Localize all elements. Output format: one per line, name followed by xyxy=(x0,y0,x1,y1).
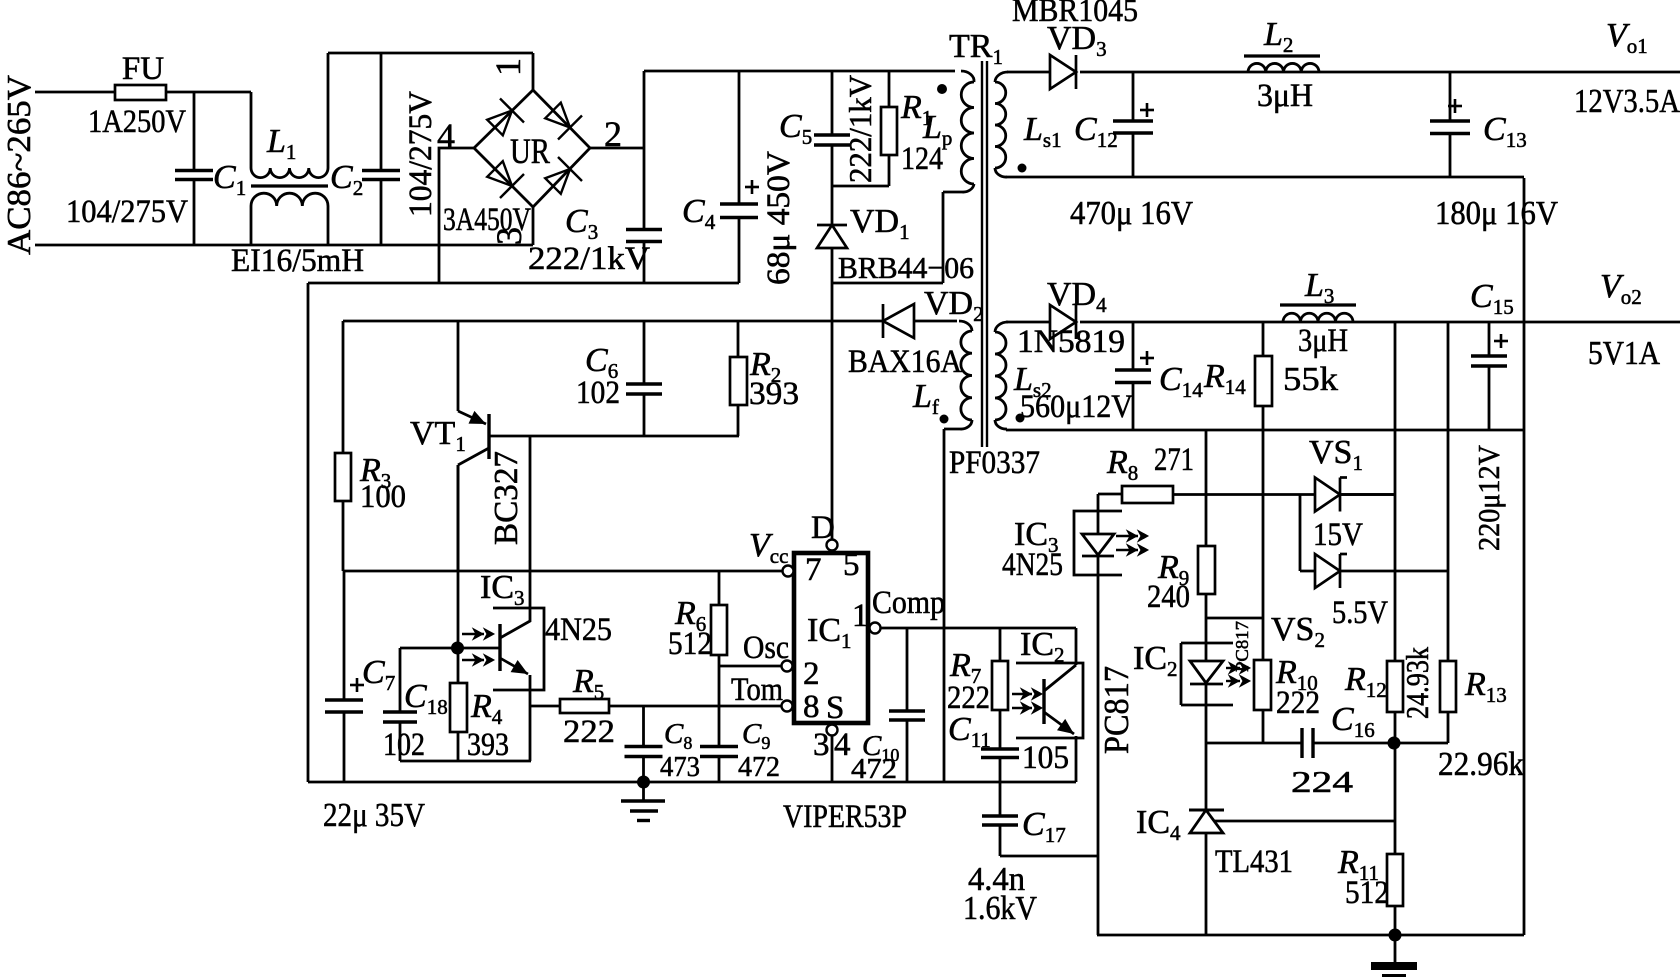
svg-text:1A250V: 1A250V xyxy=(88,104,186,140)
IC4 TL431 xyxy=(1189,809,1224,812)
resistor R6 xyxy=(718,571,721,605)
optocoupler IC3 collector xyxy=(500,436,530,638)
bridge diode bottom-right xyxy=(545,169,570,194)
label C14 plus xyxy=(1140,357,1154,360)
diode VD1 xyxy=(817,225,847,248)
svg-text:8: 8 xyxy=(803,689,820,725)
node dot C16 xyxy=(1388,737,1401,750)
capacitor C6 xyxy=(643,321,646,384)
svg-text:PC817: PC817 xyxy=(1232,621,1252,672)
svg-text:BC327: BC327 xyxy=(488,451,525,545)
wire VD2 to Lf xyxy=(913,320,957,323)
IC4 TL431 column top xyxy=(1205,743,1208,810)
resistor R7 xyxy=(999,628,1002,661)
wire C17 to right column xyxy=(1000,855,1098,858)
zener VS2 xyxy=(1315,554,1340,588)
capacitor C1 xyxy=(193,92,196,170)
resistor R3 xyxy=(335,453,351,501)
wire R13 to C16 row xyxy=(1447,712,1450,743)
svg-text:3: 3 xyxy=(813,727,830,763)
optocoupler IC3 box xyxy=(493,608,544,690)
svg-text:222/1kV: 222/1kV xyxy=(842,75,878,183)
capacitor C5 xyxy=(831,71,834,135)
svg-text:222: 222 xyxy=(1276,685,1320,721)
wire C16 row left xyxy=(1206,742,1302,745)
wire AC live top xyxy=(35,91,115,94)
wire C16 row right xyxy=(1313,742,1448,745)
optocoupler IC2 light arrow 1 xyxy=(1012,693,1032,695)
optocoupler IC2 right box xyxy=(1181,642,1233,645)
ground symbol xyxy=(642,782,645,800)
wire left column xyxy=(307,283,310,782)
svg-text:393: 393 xyxy=(467,727,509,763)
svg-text:22μ 35V: 22μ 35V xyxy=(323,797,425,834)
wire VS2 row xyxy=(1300,570,1448,573)
wire R3 column top xyxy=(342,321,345,453)
svg-text:5: 5 xyxy=(843,547,860,583)
svg-text:2: 2 xyxy=(604,114,622,154)
svg-text:473: 473 xyxy=(660,751,700,783)
secondary Ls1 xyxy=(995,72,1008,82)
wire R9 bottom jog xyxy=(1205,594,1208,618)
pin Osc circle xyxy=(782,661,793,672)
svg-text:100: 100 xyxy=(360,479,406,515)
capacitor C9 xyxy=(700,745,738,748)
wire base node to bar xyxy=(458,647,500,650)
pin S circle xyxy=(827,725,838,736)
svg-text:104/275V: 104/275V xyxy=(66,194,188,230)
svg-text:AC86~265V: AC86~265V xyxy=(1,75,38,255)
pin Vcc circle xyxy=(783,566,794,577)
resistor R13 xyxy=(1440,661,1456,712)
svg-text:4: 4 xyxy=(437,116,455,156)
wire DC- rail xyxy=(308,282,739,285)
diode VD4 xyxy=(1050,305,1076,339)
transformer TR1 core xyxy=(981,61,983,447)
capacitor C17 xyxy=(999,782,1002,816)
label C12 plus xyxy=(1140,109,1154,112)
IC4 column bottom xyxy=(1205,833,1208,935)
wire primary ground rail xyxy=(308,781,1076,784)
LED IC2 light arrow 2 xyxy=(1226,680,1240,682)
wire aux rail xyxy=(343,320,883,323)
LED IC2 right anode xyxy=(1205,618,1208,661)
resistor R10 xyxy=(1254,660,1271,710)
LED IC3 right xyxy=(1097,494,1100,534)
bridge diode top-left xyxy=(487,111,512,136)
wire 12V return down xyxy=(1523,178,1526,935)
svg-text:FU: FU xyxy=(122,51,164,87)
wire Vcc rail xyxy=(343,570,783,573)
bridge diode bottom-left xyxy=(487,161,512,186)
wire Osc xyxy=(719,665,782,668)
wire R13 column xyxy=(1447,322,1450,661)
pin Comp circle xyxy=(870,623,881,634)
capacitor C13 xyxy=(1449,72,1452,121)
node dot bottom rail xyxy=(1389,929,1402,942)
LED IC2 right xyxy=(1190,661,1223,683)
wire snubber bottom xyxy=(832,185,889,188)
inductor L2 xyxy=(1248,63,1319,72)
wire Comp xyxy=(881,627,1077,630)
transistor VT1 base wire xyxy=(489,435,739,438)
capacitor C16 xyxy=(1300,728,1303,758)
svg-text:5V1A: 5V1A xyxy=(1588,335,1660,372)
svg-text:1: 1 xyxy=(488,58,528,76)
svg-text:Tom: Tom xyxy=(731,672,783,708)
diode VD2 xyxy=(883,304,914,338)
wire 5V rail xyxy=(1080,321,1680,324)
wire IC3 anode corner xyxy=(1098,493,1122,496)
LED IC2 light arrow 1 xyxy=(1226,667,1240,669)
svg-text:VIPER53P: VIPER53P xyxy=(783,799,907,835)
resistor R8 xyxy=(1122,486,1173,503)
capacitor C2 xyxy=(380,53,383,170)
transistor VT1 bar xyxy=(487,414,490,459)
svg-text:220μ12V: 220μ12V xyxy=(1471,444,1506,551)
bridge diode top-right xyxy=(545,103,570,128)
svg-text:393: 393 xyxy=(749,376,799,412)
wire DC+ top rail xyxy=(644,70,955,73)
svg-text:15V: 15V xyxy=(1313,517,1363,553)
pin D circle xyxy=(827,540,838,551)
resistor R14 xyxy=(1262,322,1265,356)
optocoupler IC3 right box xyxy=(1074,511,1122,575)
svg-text:MBR1045: MBR1045 xyxy=(1012,0,1138,29)
svg-text:105: 105 xyxy=(1022,740,1069,776)
svg-text:240: 240 xyxy=(1147,579,1190,615)
wire L1 top left lead xyxy=(250,92,253,168)
wire R10 column xyxy=(1262,618,1265,660)
svg-text:55k: 55k xyxy=(1283,361,1338,398)
resistor R4 xyxy=(457,648,460,683)
svg-text:271: 271 xyxy=(1154,442,1194,478)
inductor L1 bottom winding xyxy=(251,193,328,206)
svg-text:24.93k: 24.93k xyxy=(1399,647,1435,719)
svg-text:222/1kV: 222/1kV xyxy=(528,241,650,277)
svg-text:4: 4 xyxy=(834,727,851,763)
ground symbol right xyxy=(1394,935,1397,963)
capacitor C7 xyxy=(343,571,346,700)
svg-text:Comp: Comp xyxy=(872,585,945,621)
transistor VT1 emitter lead xyxy=(457,321,460,411)
optocoupler IC3 bar xyxy=(498,624,501,671)
svg-text:560μ12V: 560μ12V xyxy=(1020,389,1133,425)
wire collector column xyxy=(457,465,460,648)
node dot base xyxy=(451,642,464,655)
svg-text:22.96k: 22.96k xyxy=(1438,746,1524,783)
svg-text:7: 7 xyxy=(805,552,822,588)
svg-text:UR: UR xyxy=(510,131,550,171)
primary dot xyxy=(937,84,947,94)
resistor R5 xyxy=(530,705,560,708)
optocoupler IC2 left emitter xyxy=(1044,712,1074,734)
wire VS1 to R12 column xyxy=(1339,493,1395,496)
svg-text:TL431: TL431 xyxy=(1215,844,1293,880)
svg-text:4N25: 4N25 xyxy=(1002,547,1063,583)
wire R4 bottom link xyxy=(400,760,531,763)
resistor R9 xyxy=(1198,546,1215,594)
svg-text:PC817: PC817 xyxy=(1097,666,1136,754)
svg-text:222: 222 xyxy=(563,714,615,750)
label C13 plus xyxy=(1448,105,1462,108)
LED IC3 light arrow 2 xyxy=(1116,549,1138,551)
bridge UR diamond xyxy=(474,90,590,207)
wire bridge pin4 xyxy=(439,148,474,283)
svg-text:S: S xyxy=(826,690,844,726)
wire S to ground rail xyxy=(831,736,834,783)
wire Ls2 to VD4 xyxy=(1006,321,1050,324)
svg-text:2: 2 xyxy=(803,656,820,692)
svg-text:5.5V: 5.5V xyxy=(1332,595,1388,631)
resistor R1 xyxy=(888,71,891,107)
svg-text:3μH: 3μH xyxy=(1298,323,1348,359)
capacitor C14 xyxy=(1132,322,1135,370)
wire IC3 cathode long column xyxy=(1097,556,1100,935)
svg-text:472: 472 xyxy=(738,751,780,783)
wire zener jog xyxy=(1299,495,1302,572)
label C7 plus xyxy=(350,684,364,687)
label C15 plus xyxy=(1494,340,1508,343)
wire AC neutral bottom xyxy=(35,244,533,247)
wire DC+ column xyxy=(643,71,646,229)
optocoupler IC2 light arrow 2 xyxy=(1012,707,1032,709)
optocoupler IC3 light arrow 2 xyxy=(462,659,484,661)
resistor R11 xyxy=(1387,854,1403,906)
svg-text:BRB44−06: BRB44−06 xyxy=(838,250,974,285)
svg-text:102: 102 xyxy=(576,375,620,411)
capacitor C3 xyxy=(626,228,662,231)
IC IC1 VIPER53P box xyxy=(794,553,868,723)
diode VD3 xyxy=(1050,55,1076,89)
capacitor C12 xyxy=(1132,72,1135,121)
wire LED cathode to C16 row xyxy=(1205,684,1208,743)
wire R12 column xyxy=(1394,322,1397,661)
svg-text:180μ 16V: 180μ 16V xyxy=(1435,195,1558,232)
svg-text:124: 124 xyxy=(901,141,943,177)
inductor L1 top winding xyxy=(251,168,328,178)
svg-text:PF0337: PF0337 xyxy=(949,445,1040,481)
wire VD1 to D pin xyxy=(831,248,834,540)
Lf dot xyxy=(940,415,949,424)
svg-text:512: 512 xyxy=(668,626,712,662)
svg-text:12V3.5A: 12V3.5A xyxy=(1574,83,1680,120)
wire 12V return xyxy=(1006,176,1524,179)
wire Ls1 to VD3 xyxy=(1007,71,1050,74)
inductor L1 core bar xyxy=(251,184,328,187)
svg-text:1: 1 xyxy=(852,598,869,634)
wire 12V rail xyxy=(1080,71,1680,74)
svg-text:102: 102 xyxy=(383,727,425,763)
Ls2 dot xyxy=(1016,414,1025,423)
optocoupler IC3 light arrow 1 xyxy=(462,633,484,635)
resistor R2 xyxy=(737,321,740,357)
transistor VT1 emitter arrow xyxy=(458,411,486,424)
wire bridge pin1 stub xyxy=(532,53,535,90)
wire primary bottom xyxy=(942,192,945,283)
primary winding Lp xyxy=(961,71,974,82)
svg-text:4N25: 4N25 xyxy=(545,612,612,648)
svg-text:470μ 16V: 470μ 16V xyxy=(1070,195,1193,232)
svg-text:BAX16A: BAX16A xyxy=(848,344,962,380)
pin Tom circle xyxy=(782,701,793,712)
fuse FU xyxy=(115,85,166,100)
wire L1 top right lead xyxy=(327,53,330,168)
wire Lf return column xyxy=(943,429,946,782)
wire VD1 clamp return xyxy=(832,282,943,285)
capacitor C10 xyxy=(906,628,909,711)
transistor VT1 collector xyxy=(458,448,489,465)
wire top rail to bridge xyxy=(328,52,533,55)
node dot C8 ground xyxy=(637,776,650,789)
optocoupler IC3 emitter xyxy=(500,658,528,674)
svg-text:68μ 450V: 68μ 450V xyxy=(761,151,797,285)
svg-text:224: 224 xyxy=(1291,764,1354,799)
svg-text:3μH: 3μH xyxy=(1257,78,1313,114)
wire R11 column xyxy=(1394,743,1397,854)
wire fuse to L1 xyxy=(166,91,251,94)
svg-text:3: 3 xyxy=(489,227,529,245)
wire bridge pin3 stub xyxy=(532,207,535,245)
optocoupler IC2 left box xyxy=(1016,663,1083,738)
svg-text:1N5819: 1N5819 xyxy=(1017,324,1125,360)
wire R12 to dot xyxy=(1394,712,1397,743)
capacitor C15 xyxy=(1488,322,1491,356)
inductor L3 xyxy=(1283,313,1353,322)
label C4 plus xyxy=(745,186,759,189)
wire R11 to rail xyxy=(1394,906,1397,935)
LED IC3 light arrow 1 xyxy=(1116,535,1138,537)
svg-text:1.6kV: 1.6kV xyxy=(963,890,1037,927)
optocoupler IC2 left bar xyxy=(1042,679,1045,724)
capacitor C18 xyxy=(399,648,402,712)
optocoupler IC2 left collector xyxy=(1075,628,1078,665)
wire L1 bottom right lead xyxy=(327,206,330,245)
winding Lf xyxy=(959,321,972,331)
zener VS1 xyxy=(1315,478,1340,512)
capacitor C4 xyxy=(738,71,741,204)
Ls1 dot xyxy=(1018,164,1027,173)
wire 5V return rail xyxy=(1006,429,1524,432)
wire L1 bottom left lead xyxy=(250,206,253,245)
svg-text:D: D xyxy=(811,510,835,546)
svg-text:Osc: Osc xyxy=(743,630,789,666)
svg-text:472: 472 xyxy=(851,753,897,785)
secondary Ls2 xyxy=(995,322,1008,332)
wire R10 to C16 row xyxy=(1262,710,1265,743)
svg-text:104/275V: 104/275V xyxy=(403,91,439,217)
svg-text:512: 512 xyxy=(1345,875,1389,911)
wire R9 column xyxy=(1205,430,1208,546)
wire bottom rail xyxy=(1097,934,1524,937)
wire TL431 ref xyxy=(1214,820,1395,823)
resistor R12 xyxy=(1387,661,1403,712)
wire R8 to VS1 row xyxy=(1173,493,1395,496)
wire bridge pin2 xyxy=(590,147,644,150)
wire base node to C18 xyxy=(400,647,457,650)
capacitor C8 xyxy=(642,706,645,747)
svg-text:EI16/5mH: EI16/5mH xyxy=(231,243,364,279)
wire R14-R10 column xyxy=(1262,430,1265,618)
capacitor C11 xyxy=(981,747,1019,750)
wire R3 to Vcc rail xyxy=(342,501,345,571)
